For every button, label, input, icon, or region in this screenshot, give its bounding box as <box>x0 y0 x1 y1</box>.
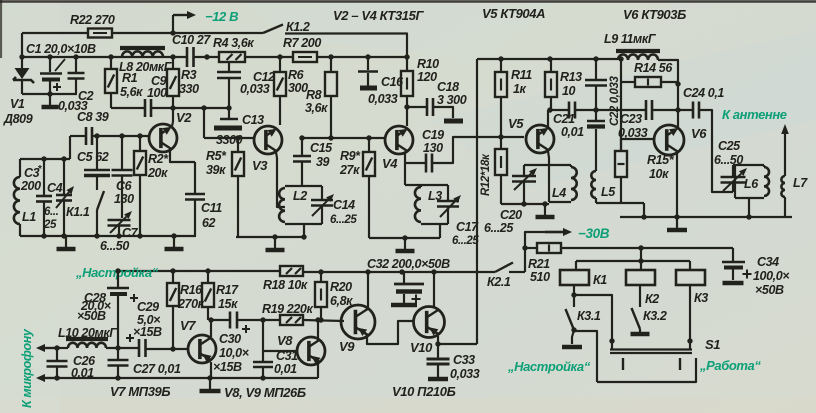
wire <box>0 0 816 2</box>
wire <box>439 224 441 238</box>
ground <box>209 378 211 389</box>
wire <box>57 377 318 379</box>
wire <box>172 96 174 122</box>
node -30V arrow <box>545 231 563 233</box>
svg-text:−30В: −30В <box>578 226 610 241</box>
svg-text:L9 11мкГ: L9 11мкГ <box>604 32 657 46</box>
wire <box>369 237 440 239</box>
svg-text:*: * <box>38 164 42 175</box>
ground <box>274 237 276 248</box>
inductor L3 <box>405 184 448 186</box>
wire <box>652 109 693 111</box>
ground <box>49 94 51 105</box>
variable capacitor C20 <box>523 165 525 176</box>
resistor R9 <box>368 138 370 152</box>
svg-text:R8: R8 <box>306 88 322 102</box>
wire <box>170 150 195 162</box>
svg-text:R14 56: R14 56 <box>634 61 673 75</box>
svg-text:R17: R17 <box>216 283 239 297</box>
svg-text:С4: С4 <box>47 181 63 195</box>
inductor L9 <box>616 49 660 53</box>
wire <box>317 56 407 58</box>
resistor R2 <box>139 136 141 151</box>
resistor R19 <box>280 315 303 325</box>
svg-text:R11: R11 <box>511 68 532 82</box>
transistor V5 <box>526 125 554 153</box>
capacitor C21 <box>568 102 571 119</box>
capacitor C29 electrolytic <box>138 339 141 357</box>
svg-text:6...25: 6...25 <box>484 221 514 235</box>
resistor R3 <box>172 57 174 69</box>
wire <box>92 135 149 137</box>
svg-text:10,0×: 10,0× <box>219 346 250 360</box>
wire <box>476 59 478 344</box>
capacitor C33 <box>437 344 439 358</box>
resistor R18 <box>280 266 303 276</box>
svg-text:V3: V3 <box>252 158 268 173</box>
resistor R6 <box>279 57 281 72</box>
svg-text:R21: R21 <box>528 257 550 271</box>
capacitor C34 <box>732 248 734 261</box>
svg-text:С25: С25 <box>718 139 741 153</box>
svg-text:V8: V8 <box>277 333 293 348</box>
svg-text:V6: V6 <box>691 126 707 141</box>
svg-text:С15: С15 <box>310 141 333 155</box>
svg-text:6...: 6... <box>44 206 59 218</box>
wire <box>639 285 641 307</box>
svg-text:270к: 270к <box>177 297 205 311</box>
wire <box>406 96 408 126</box>
variable capacitor C25 <box>732 165 734 177</box>
svg-text:10к: 10к <box>649 167 669 181</box>
svg-text:С29: С29 <box>137 300 159 314</box>
wire <box>22 32 88 34</box>
svg-text:К3.2: К3.2 <box>643 309 667 323</box>
wire <box>699 110 733 192</box>
variable capacitor C4 <box>63 159 65 195</box>
svg-text:R2*: R2* <box>148 152 169 166</box>
svg-text:R7 200: R7 200 <box>283 36 321 50</box>
svg-text:К2.1: К2.1 <box>487 275 511 289</box>
resistor R17 <box>207 271 209 283</box>
svg-text:130: 130 <box>423 141 443 155</box>
wire <box>245 56 293 58</box>
svg-text:К1.1: К1.1 <box>66 205 90 219</box>
svg-text:V7 МП39Б: V7 МП39Б <box>110 384 170 399</box>
wire <box>658 60 678 110</box>
wire <box>172 122 173 126</box>
wire <box>118 270 280 272</box>
svg-text:R9*: R9* <box>340 149 361 163</box>
wire <box>236 236 304 238</box>
wire <box>574 295 612 341</box>
svg-text:С34: С34 <box>757 255 779 269</box>
svg-text:К микрофону: К микрофону <box>20 328 34 408</box>
resistor R13 <box>550 59 552 72</box>
wire <box>317 363 319 378</box>
capacitor C26 <box>56 348 58 360</box>
svg-text:0,01: 0,01 <box>274 362 297 376</box>
svg-text:−12 В: −12 В <box>205 9 238 24</box>
svg-text:С18: С18 <box>437 80 459 94</box>
svg-text:3,6к: 3,6к <box>305 101 328 115</box>
svg-text:130: 130 <box>114 192 134 206</box>
resistor R14 <box>621 81 635 83</box>
svg-text:200: 200 <box>20 179 41 193</box>
svg-text:L5: L5 <box>601 185 616 199</box>
switch K2.1 <box>495 263 513 273</box>
svg-text:×50В: ×50В <box>77 309 106 323</box>
wire <box>276 152 285 207</box>
svg-text:0,033: 0,033 <box>240 82 270 96</box>
ground <box>391 303 417 308</box>
svg-text:L2: L2 <box>293 189 307 203</box>
capacitor C2 <box>75 57 77 72</box>
wire <box>405 152 426 163</box>
resistor R20 <box>320 272 322 282</box>
ground <box>173 236 175 247</box>
wire <box>303 224 305 237</box>
resistor R16 <box>172 271 174 283</box>
svg-text:С30: С30 <box>219 332 241 346</box>
node -12V arrow <box>172 15 174 33</box>
resistor R21 <box>525 247 537 249</box>
wire <box>367 321 414 344</box>
capacitor C24 <box>692 102 695 119</box>
resistor R4 <box>219 52 245 62</box>
svg-text:27к: 27к <box>339 163 360 177</box>
svg-text:С32 200,0×50В: С32 200,0×50В <box>367 257 450 271</box>
svg-text:Д809: Д809 <box>3 112 33 126</box>
svg-text:L1: L1 <box>22 210 36 224</box>
wire <box>210 362 212 378</box>
resistor R8 <box>330 57 332 72</box>
svg-text:V8, V9 МП26Б: V8, V9 МП26Б <box>224 385 306 400</box>
relay coil K2 <box>626 270 655 285</box>
svg-text:5,6к: 5,6к <box>120 85 143 99</box>
switch K1.2 <box>263 25 283 34</box>
capacitor C19 <box>425 154 428 173</box>
svg-text:С1 20,0×10В: С1 20,0×10В <box>26 42 96 56</box>
ground <box>544 204 546 215</box>
inductor L2 <box>285 185 322 187</box>
capacitor C22 <box>595 59 597 80</box>
wire <box>203 108 205 138</box>
svg-text:V10 П210Б: V10 П210Б <box>392 384 456 399</box>
svg-text:С31: С31 <box>276 349 298 363</box>
wire <box>501 203 549 205</box>
wire <box>576 260 690 262</box>
wire <box>477 58 618 60</box>
svg-text:С20: С20 <box>500 208 522 222</box>
wire <box>211 319 230 321</box>
ground <box>428 377 448 382</box>
capacitor C28 <box>117 271 119 287</box>
node mic input upper arrow <box>45 347 60 349</box>
svg-text:R13: R13 <box>560 70 582 84</box>
svg-text:R10: R10 <box>417 57 439 71</box>
wire <box>437 336 439 344</box>
relay contact K1.1 <box>96 175 98 190</box>
svg-text:62: 62 <box>202 216 216 230</box>
node V5 base <box>498 134 503 139</box>
svg-text:С11: С11 <box>201 201 222 215</box>
wire <box>677 110 679 129</box>
svg-text:С14: С14 <box>333 198 355 212</box>
svg-text:С17: С17 <box>456 220 479 234</box>
resistor R1 <box>110 57 112 69</box>
svg-text:0,033: 0,033 <box>368 92 398 106</box>
svg-text:V1: V1 <box>10 97 25 111</box>
wire <box>509 271 525 273</box>
svg-text:R16: R16 <box>180 283 203 297</box>
svg-text:×15В: ×15В <box>213 360 242 374</box>
transistor V4 <box>385 126 413 154</box>
capacitor C13 <box>220 118 238 121</box>
transistor V7 <box>188 335 216 363</box>
resistor R7 <box>293 52 317 62</box>
capacitor C27 <box>117 348 119 360</box>
resistor R15 <box>620 139 622 151</box>
svg-text:С19: С19 <box>422 128 444 142</box>
transistor V6 <box>654 125 684 155</box>
wire <box>575 109 646 111</box>
capacitor C8 <box>85 127 88 145</box>
svg-text:L6: L6 <box>744 177 759 191</box>
resistor R5 <box>237 138 239 152</box>
wire <box>263 350 297 352</box>
svg-text:V5: V5 <box>508 116 524 131</box>
capacitor C32 electrolytic <box>403 272 405 283</box>
svg-text:L10 20мкГ: L10 20мкГ <box>58 326 118 340</box>
inductor L4 <box>549 164 571 166</box>
wire <box>112 32 263 34</box>
capacitor C12 <box>228 62 230 72</box>
capacitor C18 <box>407 106 427 108</box>
svg-text:R20: R20 <box>330 280 352 294</box>
svg-text:L4: L4 <box>552 186 566 200</box>
variable capacitor C14 <box>321 186 323 200</box>
wire <box>573 285 575 307</box>
svg-text:К1.2: К1.2 <box>286 20 310 34</box>
switch S1 <box>611 341 613 349</box>
wire <box>317 320 319 340</box>
node antenna arrow <box>784 134 786 176</box>
capacitor C10 <box>186 47 189 67</box>
capacitor C6 <box>121 136 123 170</box>
capacitor C5 <box>96 136 98 170</box>
resistor R10 <box>406 57 408 71</box>
svg-text:V9: V9 <box>339 339 355 354</box>
wire <box>561 247 733 249</box>
svg-text:К3.1: К3.1 <box>577 309 601 323</box>
inductor L5 <box>595 129 597 171</box>
wire <box>620 216 792 218</box>
svg-text:V6 КТ903Б: V6 КТ903Б <box>623 7 686 22</box>
capacitor C9 <box>144 99 147 117</box>
wire <box>689 285 691 341</box>
svg-text:R3: R3 <box>181 68 197 82</box>
svg-text:К2: К2 <box>645 292 659 306</box>
transistor V2 <box>149 124 177 152</box>
svg-text:R22 270: R22 270 <box>70 13 115 27</box>
svg-text:С7: С7 <box>122 226 139 240</box>
wire <box>620 59 622 151</box>
wire <box>303 271 495 273</box>
wire <box>548 151 549 165</box>
capacitor C3 <box>43 159 45 196</box>
wire <box>302 137 385 139</box>
wire <box>676 153 678 217</box>
svg-text:R4 3,6к: R4 3,6к <box>213 36 254 50</box>
svg-text:„Работа“: „Работа“ <box>699 358 761 373</box>
capacitor C30 electrolytic <box>229 312 232 329</box>
capacitor C31 <box>262 351 264 362</box>
ground <box>404 238 406 249</box>
capacitor C16 <box>367 57 369 70</box>
wire <box>106 347 140 349</box>
wire <box>548 109 569 111</box>
wire <box>20 158 70 160</box>
inductor L8 <box>120 46 165 50</box>
wire <box>110 93 112 108</box>
relay coil K3 <box>676 270 705 285</box>
svg-text:R5*: R5* <box>206 149 227 163</box>
transistor V9 <box>341 305 375 339</box>
wire <box>204 137 254 139</box>
wire <box>22 93 77 95</box>
svg-text:К1: К1 <box>593 273 607 287</box>
wire <box>69 136 71 159</box>
svg-text:1к: 1к <box>513 82 527 96</box>
svg-text:К3: К3 <box>694 291 708 305</box>
wire <box>285 34 407 58</box>
wire <box>367 272 369 310</box>
zener diode V1 <box>21 57 23 68</box>
ground <box>562 345 582 350</box>
svg-text:„Настройка“: „Настройка“ <box>507 359 591 374</box>
wire <box>433 272 435 308</box>
svg-text:V2: V2 <box>176 110 192 125</box>
wire <box>151 107 229 109</box>
wire <box>572 330 574 344</box>
svg-text:S1: S1 <box>705 337 720 352</box>
wire <box>70 135 86 137</box>
svg-text:L7: L7 <box>793 176 808 190</box>
wire <box>20 235 196 237</box>
ground <box>639 329 641 332</box>
variable capacitor C17 <box>447 185 449 201</box>
svg-text:V10: V10 <box>410 340 433 355</box>
svg-text:10: 10 <box>562 84 576 98</box>
svg-text:R19 220к: R19 220к <box>262 302 313 316</box>
svg-text:С27 0,01: С27 0,01 <box>133 362 181 376</box>
svg-text:0,01: 0,01 <box>561 125 584 139</box>
svg-text:15к: 15к <box>218 297 238 311</box>
svg-text:510: 510 <box>530 270 550 284</box>
variable capacitor C7 <box>108 219 131 222</box>
svg-text:V5 КТ904А: V5 КТ904А <box>482 6 545 21</box>
inductor L1 <box>19 159 21 177</box>
svg-text:С33: С33 <box>453 353 475 367</box>
wire <box>22 56 186 58</box>
capacitor C1 <box>49 57 51 72</box>
wire <box>210 320 212 337</box>
wire <box>621 138 654 140</box>
svg-text:×50В: ×50В <box>755 283 784 297</box>
svg-text:25: 25 <box>43 219 57 231</box>
svg-text:39к: 39к <box>206 163 226 177</box>
ground <box>723 281 744 286</box>
svg-text:×15В: ×15В <box>133 325 162 339</box>
transistor V3 <box>254 126 282 154</box>
svg-text:V4: V4 <box>382 156 398 171</box>
svg-text:V7: V7 <box>180 318 196 333</box>
svg-text:С5 62: С5 62 <box>77 150 109 164</box>
wire <box>404 163 406 185</box>
svg-text:R15*: R15* <box>647 153 675 167</box>
wire <box>146 348 188 350</box>
svg-text:С13: С13 <box>242 113 264 127</box>
svg-text:6...50: 6...50 <box>100 239 129 253</box>
wire <box>596 202 644 204</box>
transistor V10 <box>414 307 445 338</box>
svg-text:К антенне: К антенне <box>722 107 787 122</box>
svg-text:6...25: 6...25 <box>330 214 357 226</box>
inductor L10 <box>66 337 108 341</box>
switch K3.1 <box>566 309 575 330</box>
resistor R22 <box>88 29 112 38</box>
wire <box>574 331 597 382</box>
inductor L7 <box>784 197 786 217</box>
svg-text:100,0×: 100,0× <box>753 269 790 283</box>
svg-text:R12*18к: R12*18к <box>480 153 492 196</box>
wire <box>194 56 219 58</box>
wire <box>57 347 68 349</box>
svg-text:С10 27: С10 27 <box>172 33 211 47</box>
capacitor C15 <box>301 138 303 156</box>
svg-text:39: 39 <box>316 155 330 169</box>
svg-text:С8 39: С8 39 <box>77 110 109 124</box>
wire <box>547 110 549 128</box>
ground <box>65 236 67 247</box>
svg-text:R18 10к: R18 10к <box>263 278 308 292</box>
svg-text:С23: С23 <box>620 112 642 126</box>
svg-text:0,033: 0,033 <box>450 367 480 381</box>
node mic input lower arrow <box>45 377 60 379</box>
svg-text:V2 – V4 КТ315Г: V2 – V4 КТ315Г <box>333 8 424 23</box>
svg-text:330: 330 <box>179 82 199 96</box>
svg-text:3 300: 3 300 <box>437 93 467 107</box>
capacitor C23 <box>645 100 648 120</box>
resistor R11 <box>500 59 502 72</box>
svg-text:100: 100 <box>147 86 167 100</box>
svg-text:С24 0,1: С24 0,1 <box>683 86 724 100</box>
svg-text:С6: С6 <box>116 179 133 193</box>
switch K3.2 <box>632 308 641 329</box>
ground <box>676 219 678 228</box>
wire <box>55 59 65 71</box>
svg-text:R6: R6 <box>288 68 305 82</box>
svg-text:6...25: 6...25 <box>452 235 479 247</box>
transistor V8 <box>297 337 325 365</box>
svg-text:120: 120 <box>417 70 437 84</box>
wire <box>303 320 344 321</box>
inductor L6 <box>733 164 764 166</box>
wire <box>237 319 280 321</box>
svg-text:L8 20мкГ: L8 20мкГ <box>119 60 173 74</box>
svg-text:20к: 20к <box>147 166 168 180</box>
